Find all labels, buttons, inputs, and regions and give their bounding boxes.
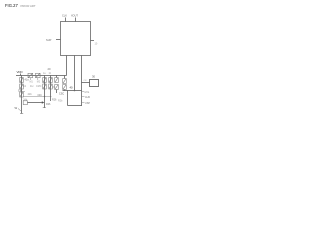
svg-text:M2: M2 — [37, 81, 41, 84]
svg-text:FIG.27: FIG.27 — [5, 3, 18, 8]
resistor R2 on rail — [36, 73, 41, 77]
arrowhead — [42, 101, 45, 103]
wire left pin — [56, 39, 61, 41]
transistor Q6 — [49, 78, 53, 83]
wire branch C — [50, 76, 52, 102]
resistor R1 on rail — [28, 73, 33, 77]
svg-text:10: 10 — [95, 43, 98, 46]
svg-text:20: 20 — [48, 67, 51, 71]
transistor Q7 — [49, 84, 53, 89]
svg-text:41b: 41b — [28, 93, 33, 96]
svg-text:41c: 41c — [30, 86, 35, 88]
svg-text:M1: M1 — [30, 81, 34, 84]
wire branch A — [21, 76, 23, 114]
label AUD — [82, 96, 85, 98]
svg-text:1a: 1a — [43, 73, 46, 75]
wire box pin to node N2 — [74, 56, 76, 91]
arrow wire control — [28, 102, 43, 104]
pin wire XOUT — [75, 18, 77, 22]
transistor Q9 — [55, 85, 59, 90]
svg-text:R2b: R2b — [58, 99, 63, 102]
resistor R5 — [23, 101, 27, 105]
svg-text:USP: USP — [85, 102, 90, 105]
amplifier block 30 — [90, 80, 99, 87]
wire VDD rail — [16, 75, 67, 77]
transistor Q1 — [20, 78, 24, 83]
svg-text:SUP: SUP — [46, 38, 52, 42]
wire to block 30 — [82, 82, 90, 84]
wire box pin to right branch — [81, 56, 83, 107]
transistor Q11 — [63, 85, 67, 90]
svg-text:CLK: CLK — [62, 14, 67, 17]
transistor Q4 — [43, 78, 47, 83]
transistor Q3 — [20, 92, 24, 97]
svg-text:R26: R26 — [46, 103, 51, 106]
label USP — [82, 102, 85, 104]
stub under R2 — [37, 78, 39, 80]
gate tick Q3 — [22, 91, 25, 93]
svg-text:CSC: CSC — [59, 92, 64, 95]
stub under R1 — [29, 78, 31, 80]
wire VDD stub — [20, 74, 22, 76]
svg-text:1b: 1b — [49, 73, 52, 75]
transistor Q8 — [55, 78, 59, 83]
junction dot N1 — [44, 96, 45, 97]
pin wire CLK — [65, 18, 67, 22]
svg-text:PRIOR ART: PRIOR ART — [21, 4, 36, 8]
wire node N2 — [63, 90, 82, 92]
svg-text:AUD: AUD — [85, 96, 90, 99]
svg-text:R26: R26 — [52, 98, 57, 101]
wire box bottom to rail — [66, 56, 68, 76]
wire branch B — [44, 76, 46, 109]
ground branch B — [43, 107, 46, 109]
svg-text:CMC: CMC — [36, 85, 42, 88]
transistor Q5 — [43, 84, 47, 89]
svg-text:24b: 24b — [23, 99, 28, 102]
wire branch D — [57, 76, 65, 94]
ground branch A — [20, 113, 23, 115]
svg-text:XOUT: XOUT — [71, 14, 78, 17]
svg-text:UVL: UVL — [85, 91, 90, 94]
svg-text:b2: b2 — [24, 86, 27, 88]
label UVL — [82, 91, 84, 93]
wire cap branch — [67, 91, 69, 106]
oscillator block U10 — [61, 22, 91, 56]
transistor Q2 — [20, 84, 24, 89]
svg-text:40: 40 — [70, 85, 73, 89]
wire node N1 — [24, 96, 52, 98]
wire bottom link — [68, 105, 82, 107]
junction dot N2 — [74, 90, 76, 92]
wire right pin — [91, 40, 95, 42]
svg-text:VDD: VDD — [17, 70, 23, 74]
transistor Q10 — [63, 79, 67, 84]
leader line W — [18, 109, 21, 112]
svg-text:30: 30 — [92, 75, 95, 79]
svg-text:W: W — [15, 106, 18, 110]
svg-text:CK: CK — [84, 80, 88, 82]
